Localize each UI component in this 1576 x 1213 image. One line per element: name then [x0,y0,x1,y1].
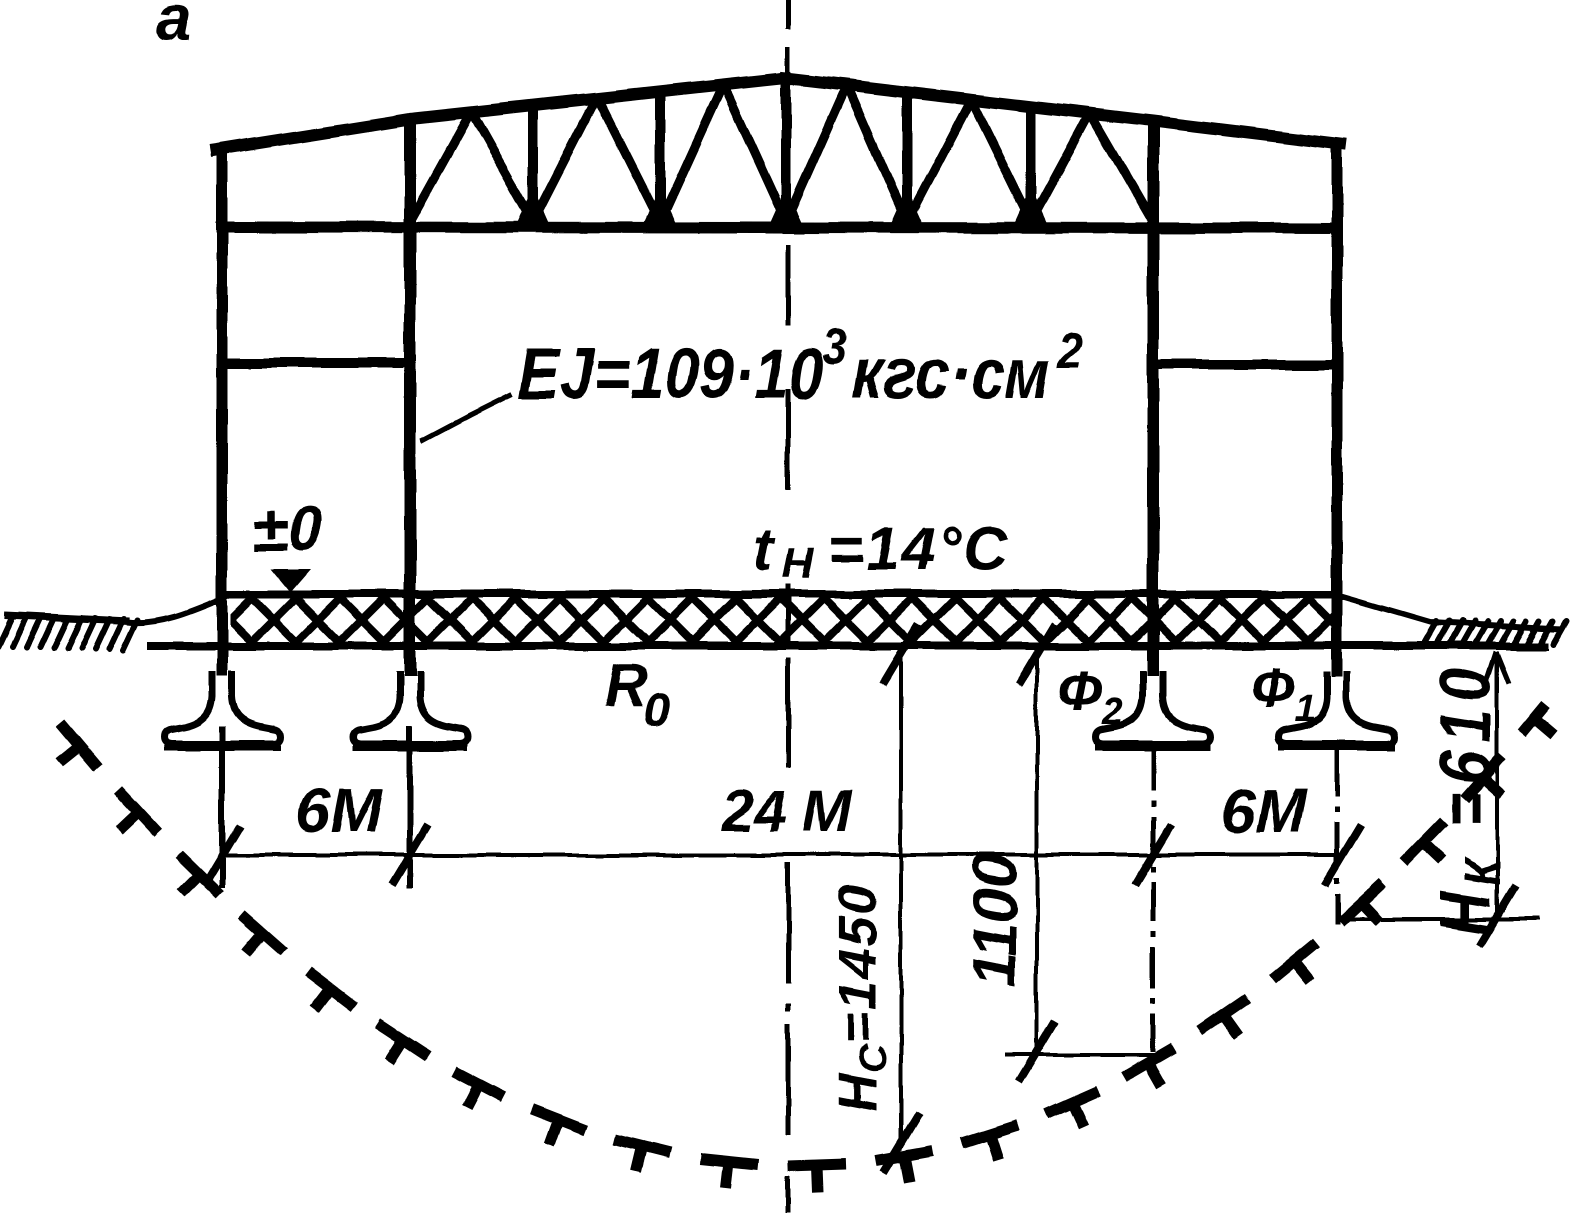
1100 dim text rotated [961,854,1030,987]
svg-text:6М: 6М [296,777,383,846]
right soil hatching [1423,621,1566,644]
svg-text:±0: ±0 [252,493,323,565]
1100 dimension line [1035,650,1039,1054]
dim tick left outer [204,825,240,885]
dim tick 1100 bottom [1019,1022,1055,1082]
svg-text:1: 1 [1294,688,1315,730]
dim tick Hc bottom [883,1113,919,1173]
truss top chord left slope [216,78,786,150]
truss diagonals [410,84,1153,222]
svg-text:R: R [604,652,647,719]
svg-text:2: 2 [1101,691,1123,733]
floor slab band bottom edge [148,642,1548,650]
footing F2 axis dash-dot [1151,750,1156,1052]
level mark triangle (datum) [271,569,310,592]
Hc dimension line [899,648,903,1148]
truss top chord right slope [786,78,1341,144]
ground surface curve up to slab left [128,597,226,623]
svg-text:а: а [156,0,192,54]
svg-text:К: К [1454,856,1510,885]
left outer column [217,146,228,676]
Hk top arrowhead [1485,652,1509,686]
building centre axis line [786,0,791,1213]
dim tick Hk bottom [1479,886,1515,946]
left outer footing axis [219,726,225,888]
svg-text:Н: Н [1426,891,1506,935]
svg-text:6М: 6М [1220,777,1307,846]
natural ground line left [4,615,130,621]
foundation footing F2 under right inner column [1095,671,1211,747]
left inner column [404,116,416,676]
svg-text:3: 3 [822,319,846,376]
left wall tie beam [222,358,410,368]
Hk dimension line [1495,652,1499,919]
right wall tie beam [1153,359,1337,369]
left soil hatching [0,616,138,650]
truss vertical posts [533,80,1031,228]
Hk=610 dim text rotated [1426,660,1511,935]
svg-text:EJ=109·10: EJ=109·10 [518,335,823,414]
leader line from EJ label to column [421,394,512,441]
svg-text:Н: Н [782,539,815,588]
truss bottom node gussets [516,188,1048,226]
svg-text:=1450: =1450 [828,882,888,1044]
svg-text:t: t [752,515,775,583]
ground surface slope right of building [1341,596,1562,629]
svg-text:кгс·см: кгс·см [852,335,1050,414]
foundation footing F1 under right outer column [1279,671,1395,747]
Hk dimension bottom bar [1343,917,1540,921]
svg-text:Ф: Ф [1250,656,1294,719]
svg-text:=610: =610 [1426,660,1506,827]
footing F1 axis [1335,750,1340,924]
svg-text:Н: Н [828,1072,888,1112]
main horizontal dimension line [222,853,1343,857]
floor slab band top edge [226,590,1341,598]
foundation footing under left outer column [164,671,280,747]
dim tick Hc top [883,624,919,684]
truss bottom chord [216,227,1342,228]
frost boundary dashed curve with tick marks [59,704,1554,1192]
dim tick right inner [1135,825,1171,885]
dim tick 1100 top [1019,624,1055,684]
1100 dimension bottom bar [1005,1053,1165,1057]
foundation footing under left inner column [352,671,468,747]
Hc=1450 dim text rotated [828,882,895,1112]
right outer column [1332,140,1343,676]
left inner footing axis [407,726,413,888]
svg-text:Ф: Ф [1058,659,1102,722]
dim tick left inner [392,825,428,885]
svg-text:С: С [853,1044,895,1072]
svg-text:1100: 1100 [961,854,1030,987]
right inner column [1147,118,1159,676]
svg-text:24 М: 24 М [721,779,853,844]
EJ stiffness label [518,319,1082,414]
svg-text:0: 0 [644,684,671,737]
svg-text:=14°C: =14°C [828,515,1010,583]
dim tick right outer [1325,825,1361,885]
svg-text:2: 2 [1057,323,1082,380]
